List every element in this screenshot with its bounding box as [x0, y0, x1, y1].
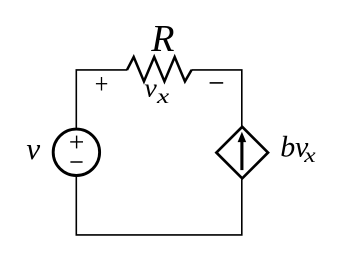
polarity plus for v_x (left of resistor)	[96, 77, 107, 91]
svg-text:x: x	[303, 145, 316, 167]
plus sign inside source	[70, 136, 83, 149]
wire top-right segment with corner	[191, 70, 241, 126]
dependent current source diamond	[216, 127, 268, 179]
voltage source v circle	[53, 129, 99, 175]
polarity minus for v_x (right of resistor)	[210, 82, 224, 84]
minus sign inside source	[70, 161, 82, 163]
label bv_x (dependent source value)	[280, 131, 315, 167]
resistor R zigzag	[127, 57, 192, 81]
svg-text:v: v	[26, 131, 40, 166]
wire top-left segment with corner	[76, 70, 127, 129]
arrow inside dependent source	[238, 132, 247, 170]
svg-text:x: x	[156, 86, 170, 108]
svg-text:R: R	[150, 18, 174, 60]
label v_x (resistor voltage)	[144, 74, 169, 109]
wire bottom segment with both corners	[76, 176, 242, 235]
svg-text:v: v	[144, 74, 157, 103]
